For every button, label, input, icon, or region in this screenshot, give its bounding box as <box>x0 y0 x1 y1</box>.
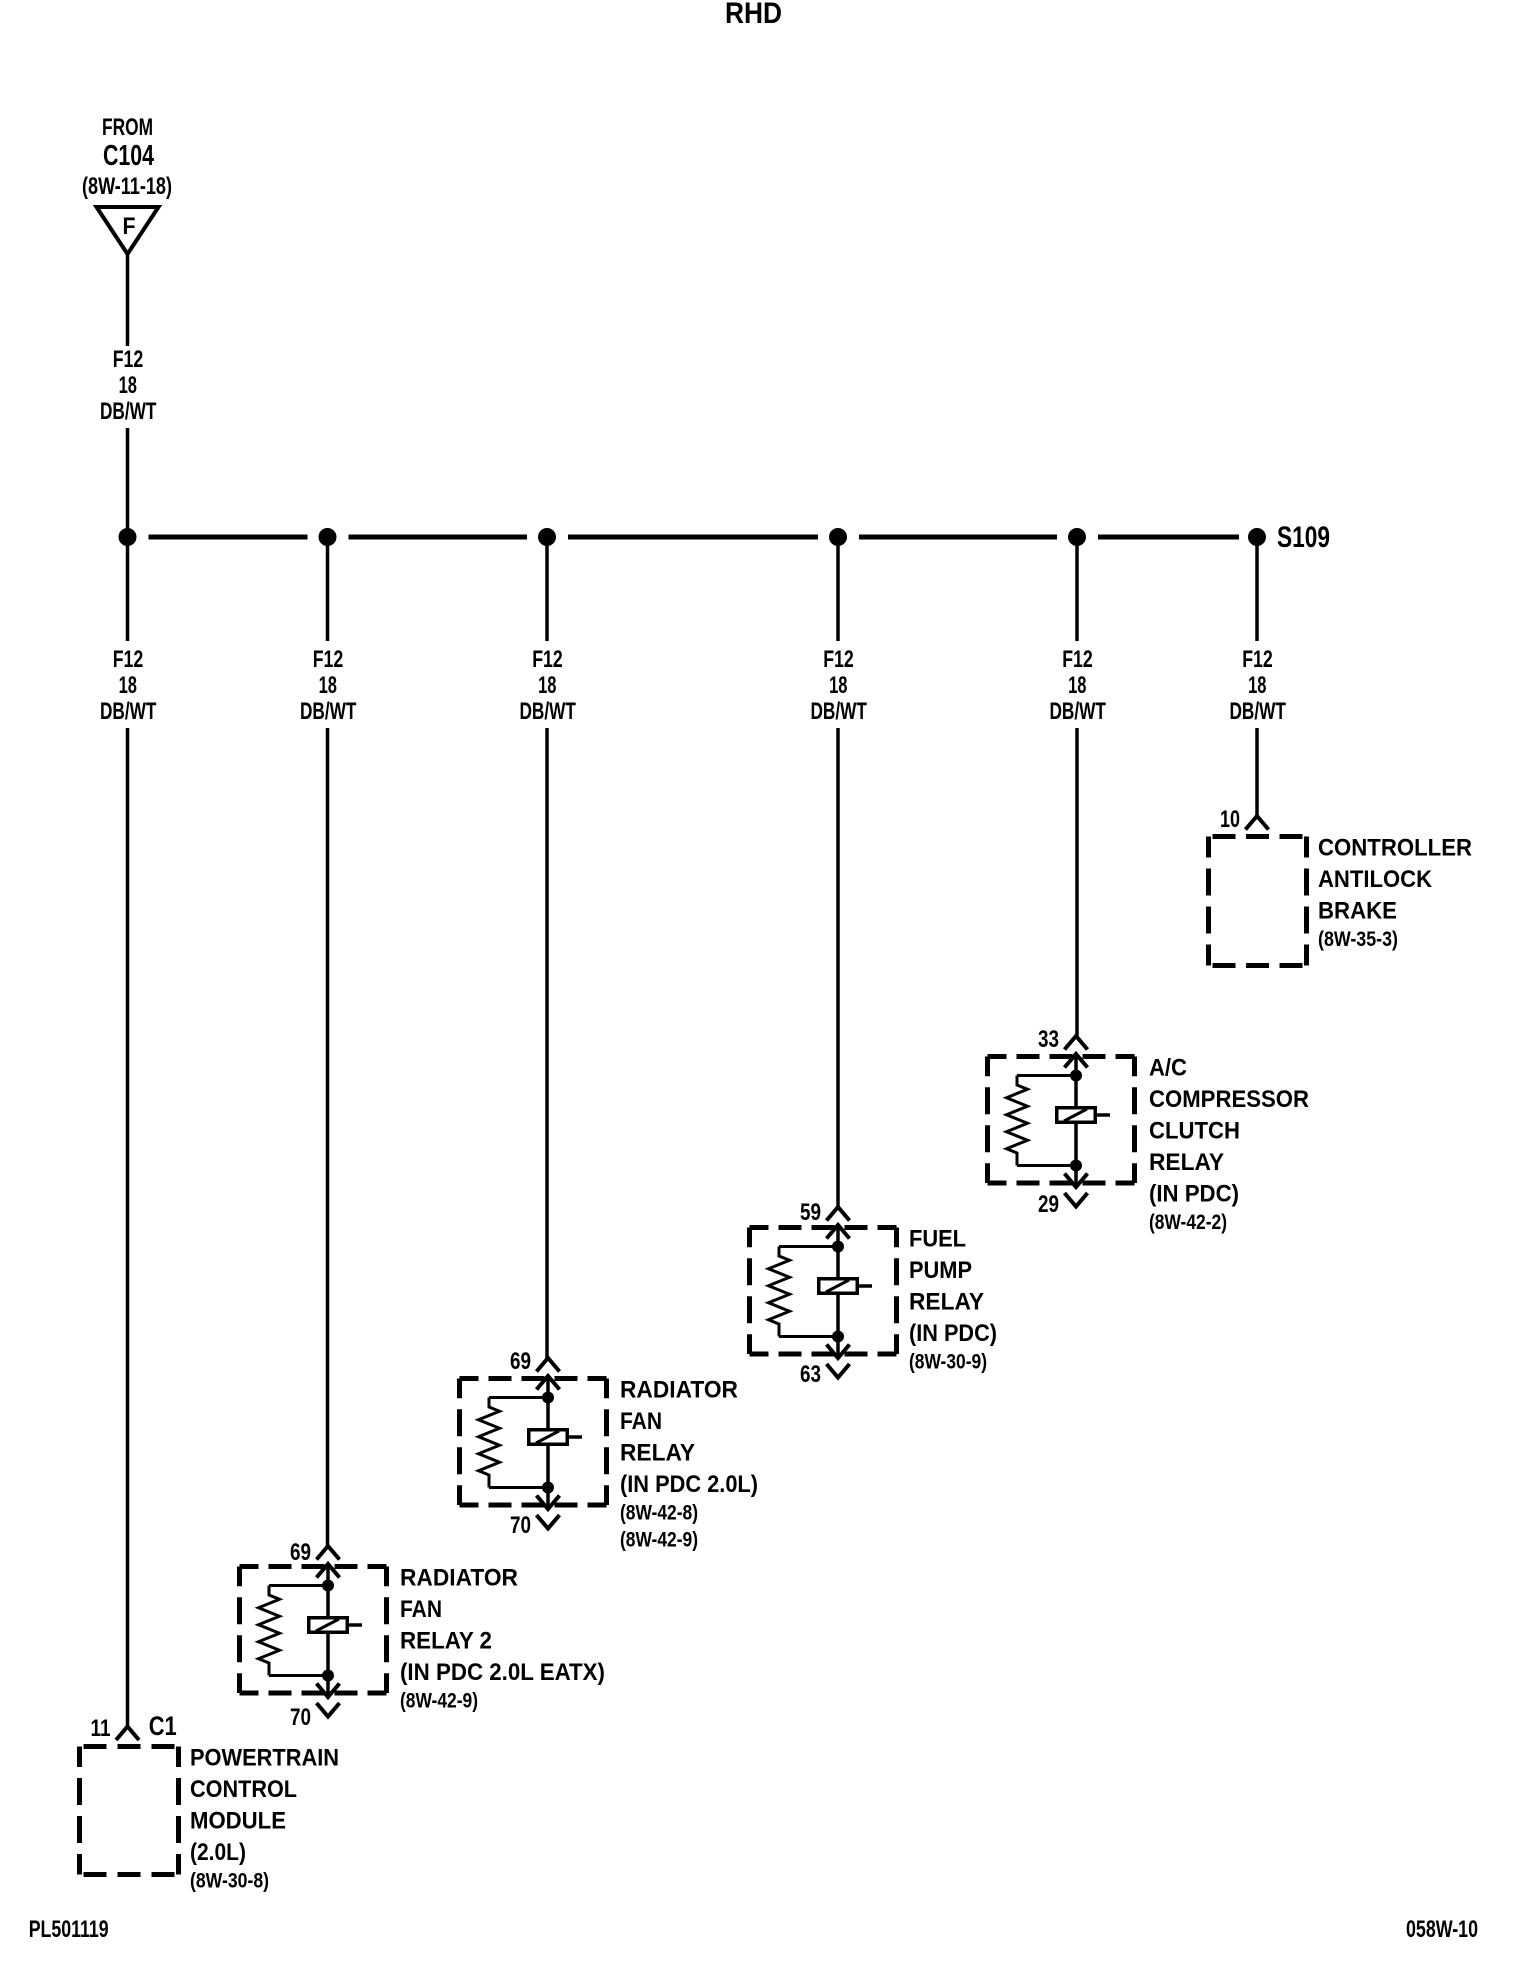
label text for radiator fan relay 2 <box>400 1565 605 1713</box>
powertrain control module dashed box <box>80 1747 179 1875</box>
svg-text:F12: F12 <box>1242 646 1273 673</box>
wire bus segment S109 (5) <box>1098 535 1239 540</box>
svg-text:18: 18 <box>119 672 137 699</box>
wire through a/c compressor clutch relay coil <box>1074 1054 1078 1186</box>
relay coil box in radiator fan relay 2 <box>309 1618 348 1633</box>
svg-text:18: 18 <box>1068 672 1086 699</box>
svg-text:DB/WT: DB/WT <box>810 698 867 725</box>
footer diagram number PL501119 <box>29 1916 109 1943</box>
wire drop 4 F12 18 DB/WT from S109 bus <box>836 537 840 1207</box>
svg-text:RADIATOR: RADIATOR <box>620 1377 738 1404</box>
svg-text:PL501119: PL501119 <box>29 1916 109 1943</box>
splice junction dot 6 on S109 bus <box>1248 528 1266 546</box>
svg-text:RELAY: RELAY <box>1149 1149 1224 1176</box>
svg-text:POWERTRAIN: POWERTRAIN <box>190 1745 339 1772</box>
svg-text:18: 18 <box>1248 672 1266 699</box>
wire drop 6 F12 18 DB/WT from S109 bus <box>1255 537 1259 816</box>
label text for controller antilock brake <box>1318 835 1472 952</box>
svg-text:69: 69 <box>290 1539 311 1566</box>
svg-text:ANTILOCK: ANTILOCK <box>1318 866 1433 893</box>
wire drop 3 F12 18 DB/WT from S109 bus <box>545 537 549 1358</box>
svg-text:PUMP: PUMP <box>909 1257 972 1284</box>
connector terminal chevron below radiator fan relay 2 <box>317 1703 340 1717</box>
connector terminal chevron above a/c compressor clutch relay <box>1065 1036 1088 1050</box>
svg-text:18: 18 <box>319 672 337 699</box>
coil output stub in fuel pump relay <box>859 1284 872 1288</box>
svg-text:BRAKE: BRAKE <box>1318 898 1397 925</box>
svg-text:CONTROL: CONTROL <box>190 1776 297 1803</box>
svg-text:(8W-42-9): (8W-42-9) <box>400 1689 478 1713</box>
svg-text:DB/WT: DB/WT <box>1049 698 1106 725</box>
pin 33 label (a/c compressor clutch relay top) <box>1038 1026 1059 1053</box>
svg-text:70: 70 <box>510 1512 531 1539</box>
wire bottom junction to resistor in radiator fan relay <box>489 1486 548 1489</box>
svg-text:18: 18 <box>538 672 556 699</box>
svg-text:F12: F12 <box>823 646 854 673</box>
wire bottom junction to resistor in radiator fan relay 2 <box>269 1674 328 1677</box>
terminal arrow at bottom edge of a/c compressor clutch relay <box>1065 1174 1088 1188</box>
svg-text:C104: C104 <box>103 140 154 172</box>
terminal arrow at top edge of fuel pump relay <box>827 1225 850 1239</box>
footer page number 058W-10 <box>1406 1916 1478 1943</box>
connector C104 reference (8W-11-18) <box>82 173 172 200</box>
svg-text:(IN PDC 2.0L): (IN PDC 2.0L) <box>620 1471 758 1498</box>
pin 70 label (radiator fan relay 2 bottom) <box>290 1704 311 1731</box>
splice junction dot 2 on S109 bus <box>319 528 337 546</box>
terminal arrow at top edge of a/c compressor clutch relay <box>1065 1054 1088 1068</box>
wire through radiator fan relay 2 coil <box>326 1564 330 1696</box>
svg-text:FAN: FAN <box>400 1596 442 1623</box>
pin 63 label (fuel pump relay bottom) <box>800 1361 821 1388</box>
svg-text:CONTROLLER: CONTROLLER <box>1318 835 1472 862</box>
svg-text:F12: F12 <box>113 346 144 373</box>
label text for radiator fan relay <box>620 1377 758 1552</box>
svg-text:F12: F12 <box>313 646 344 673</box>
wire bottom junction to resistor in a/c compressor clutch relay <box>1017 1164 1076 1167</box>
svg-text:59: 59 <box>800 1199 821 1226</box>
wire drop 2 F12 18 DB/WT from S109 bus <box>326 537 330 1546</box>
svg-text:F12: F12 <box>113 646 144 673</box>
terminal arrow at bottom edge of fuel pump relay <box>827 1345 850 1359</box>
svg-text:058W-10: 058W-10 <box>1406 1916 1478 1943</box>
svg-text:RELAY: RELAY <box>620 1440 695 1467</box>
relay coil box in fuel pump relay <box>819 1279 858 1294</box>
svg-text:(8W-35-3): (8W-35-3) <box>1318 927 1398 951</box>
svg-text:FROM: FROM <box>102 114 153 141</box>
relay coil box in radiator fan relay <box>529 1430 568 1445</box>
terminal arrow at top edge of radiator fan relay 2 <box>317 1564 340 1578</box>
junction node top inside radiator fan relay <box>542 1392 554 1404</box>
svg-text:(8W-42-9): (8W-42-9) <box>620 1528 698 1552</box>
svg-text:COMPRESSOR: COMPRESSOR <box>1149 1086 1309 1113</box>
resistor (coil suppression) in fuel pump relay <box>769 1247 790 1337</box>
wire bus segment S109 (3) <box>568 535 818 540</box>
svg-text:33: 33 <box>1038 1026 1059 1053</box>
wire through fuel pump relay coil <box>836 1225 840 1357</box>
svg-text:(IN PDC 2.0L EATX): (IN PDC 2.0L EATX) <box>400 1659 605 1686</box>
svg-text:F12: F12 <box>1062 646 1093 673</box>
wire label F12 18 DB/WT (drop 2) <box>300 646 357 725</box>
wire drop 1 F12 18 DB/WT from S109 bus <box>126 537 130 1727</box>
svg-text:F: F <box>123 213 136 240</box>
svg-text:F12: F12 <box>532 646 563 673</box>
svg-text:RHD: RHD <box>725 0 782 30</box>
wire top junction to resistor in radiator fan relay <box>489 1396 548 1399</box>
svg-text:18: 18 <box>119 372 137 399</box>
connector C104 triangle symbol F <box>97 207 159 254</box>
svg-text:29: 29 <box>1038 1191 1059 1218</box>
wire top junction to resistor in radiator fan relay 2 <box>269 1584 328 1587</box>
junction node bottom inside a/c compressor clutch relay <box>1070 1160 1082 1172</box>
junction node top inside radiator fan relay 2 <box>322 1580 334 1592</box>
svg-text:18: 18 <box>829 672 847 699</box>
splice junction dot 4 on S109 bus <box>829 528 847 546</box>
svg-text:63: 63 <box>800 1361 821 1388</box>
splice junction dot 1 on S109 bus <box>119 528 137 546</box>
svg-text:FAN: FAN <box>620 1408 662 1435</box>
connector terminal chevron above fuel pump relay <box>827 1207 850 1221</box>
svg-text:DB/WT: DB/WT <box>519 698 576 725</box>
svg-text:69: 69 <box>510 1348 531 1375</box>
svg-text:DB/WT: DB/WT <box>100 398 157 425</box>
resistor (coil suppression) in radiator fan relay <box>479 1398 500 1488</box>
connector terminal chevron at powertrain control module <box>116 1727 139 1741</box>
wire label F12 18 DB/WT (drop 1) <box>100 646 157 725</box>
coil output stub in radiator fan relay 2 <box>349 1623 362 1627</box>
splice junction dot 5 on S109 bus <box>1068 528 1086 546</box>
svg-text:(8W-30-8): (8W-30-8) <box>190 1869 269 1893</box>
label text for fuel pump relay <box>909 1226 997 1374</box>
fuel pump relay dashed box <box>750 1228 897 1355</box>
wire label F12 18 DB/WT (drop 5) <box>1049 646 1106 725</box>
connector terminal chevron above radiator fan relay <box>537 1358 560 1372</box>
label text for a/c compressor clutch relay <box>1149 1055 1309 1235</box>
wire bus segment S109 (4) <box>859 535 1057 540</box>
connector terminal chevron below fuel pump relay <box>827 1364 850 1378</box>
svg-text:(IN PDC): (IN PDC) <box>1149 1181 1239 1208</box>
connector terminal chevron above radiator fan relay 2 <box>317 1546 340 1560</box>
svg-text:(8W-30-9): (8W-30-9) <box>909 1350 987 1374</box>
wire label F12 18 DB/WT (drop 4) <box>810 646 867 725</box>
junction node bottom inside radiator fan relay <box>542 1482 554 1494</box>
svg-text:MODULE: MODULE <box>190 1808 286 1835</box>
pin 59 label (fuel pump relay top) <box>800 1199 821 1226</box>
svg-text:RELAY: RELAY <box>909 1289 984 1316</box>
svg-text:70: 70 <box>290 1704 311 1731</box>
wire F12 18 DB/WT from C104 triangle down to splice S109 bus <box>126 254 130 537</box>
pin 10 label (controller antilock brake) <box>1220 806 1240 833</box>
radiator fan relay 2 dashed box <box>240 1567 387 1694</box>
wire through radiator fan relay coil <box>546 1376 550 1508</box>
svg-text:(8W-42-2): (8W-42-2) <box>1149 1210 1227 1234</box>
wire bus segment S109 (1) <box>149 535 308 540</box>
wire label F12 18 DB/WT (drop 6) <box>1229 646 1286 725</box>
svg-text:DB/WT: DB/WT <box>100 698 157 725</box>
pin 11 label (powertrain control module) <box>91 1715 111 1742</box>
connector C1 label (powertrain control module) <box>149 1711 177 1741</box>
svg-text:DB/WT: DB/WT <box>300 698 357 725</box>
junction node top inside a/c compressor clutch relay <box>1070 1070 1082 1082</box>
controller antilock brake dashed box <box>1209 837 1307 966</box>
junction node bottom inside fuel pump relay <box>832 1331 844 1343</box>
terminal arrow at top edge of radiator fan relay <box>537 1376 560 1390</box>
terminal arrow at bottom edge of radiator fan relay <box>537 1496 560 1510</box>
junction node top inside fuel pump relay <box>832 1241 844 1253</box>
a/c compressor clutch relay dashed box <box>988 1057 1135 1184</box>
pin 69 label (radiator fan relay 2 top) <box>290 1539 311 1566</box>
svg-text:(8W-11-18): (8W-11-18) <box>82 173 172 200</box>
pin 69 label (radiator fan relay top) <box>510 1348 531 1375</box>
relay coil box in a/c compressor clutch relay <box>1057 1108 1096 1123</box>
wire drop 5 F12 18 DB/WT from S109 bus <box>1075 537 1079 1036</box>
connector terminal chevron below a/c compressor clutch relay <box>1065 1193 1088 1207</box>
wire label F12 18 DB/WT (feed wire) <box>100 346 157 425</box>
svg-text:RADIATOR: RADIATOR <box>400 1565 518 1592</box>
splice junction dot 3 on S109 bus <box>538 528 556 546</box>
wire bottom junction to resistor in fuel pump relay <box>779 1335 838 1338</box>
svg-text:RELAY 2: RELAY 2 <box>400 1628 492 1655</box>
svg-text:(2.0L): (2.0L) <box>190 1839 246 1866</box>
resistor (coil suppression) in a/c compressor clutch relay <box>1007 1076 1028 1166</box>
svg-text:10: 10 <box>1220 806 1240 833</box>
pin 29 label (a/c compressor clutch relay bottom) <box>1038 1191 1059 1218</box>
connector terminal chevron at controller antilock brake <box>1246 816 1269 830</box>
svg-text:CLUTCH: CLUTCH <box>1149 1118 1240 1145</box>
radiator fan relay dashed box <box>460 1379 607 1506</box>
connector terminal chevron below radiator fan relay <box>537 1515 560 1529</box>
svg-text:A/C: A/C <box>1149 1055 1187 1082</box>
resistor (coil suppression) in radiator fan relay 2 <box>259 1586 280 1676</box>
svg-text:(IN PDC): (IN PDC) <box>909 1320 997 1347</box>
coil output stub in radiator fan relay <box>569 1435 582 1439</box>
label text for powertrain control module <box>190 1745 339 1893</box>
svg-text:DB/WT: DB/WT <box>1229 698 1286 725</box>
wire bus segment S109 (2) <box>349 535 528 540</box>
title RHD <box>725 0 782 30</box>
terminal arrow at bottom edge of radiator fan relay 2 <box>317 1684 340 1698</box>
junction node bottom inside radiator fan relay 2 <box>322 1670 334 1682</box>
pin 70 label (radiator fan relay bottom) <box>510 1512 531 1539</box>
wire top junction to resistor in fuel pump relay <box>779 1245 838 1248</box>
wire top junction to resistor in a/c compressor clutch relay <box>1017 1074 1076 1077</box>
connector C104 name <box>103 140 154 172</box>
coil output stub in a/c compressor clutch relay <box>1097 1113 1110 1117</box>
svg-text:S109: S109 <box>1277 521 1330 554</box>
wire label F12 18 DB/WT (drop 3) <box>519 646 576 725</box>
svg-text:FUEL: FUEL <box>909 1226 966 1253</box>
svg-text:C1: C1 <box>149 1711 177 1741</box>
svg-text:11: 11 <box>91 1715 111 1742</box>
connector C104 label FROM <box>102 114 153 141</box>
svg-text:(8W-42-8): (8W-42-8) <box>620 1501 698 1525</box>
splice name S109 <box>1277 521 1330 554</box>
